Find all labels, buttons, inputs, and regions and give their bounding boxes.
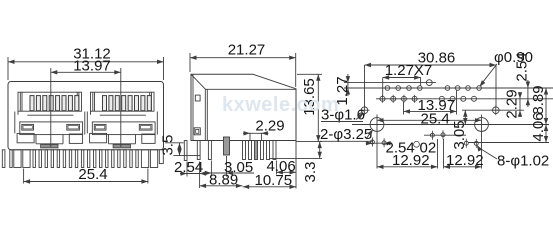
- footprint right mounting hole phi3.25: [475, 118, 489, 132]
- dimension 13.97 extension lines (port centers): [50, 68, 52, 147]
- svg-text:3.05: 3.05: [451, 120, 468, 149]
- dimension 3.05 footprint: [464, 110, 466, 124]
- dimension 3.5 extension lines: [165, 142, 184, 144]
- svg-text:25.4: 25.4: [78, 166, 107, 183]
- footprint row1 port1 signal holes: [385, 86, 390, 91]
- svg-text:3.3: 3.3: [302, 162, 319, 183]
- dimension 25.4 footprint extension lines: [376, 115, 378, 132]
- port 1 inner walls: [19, 92, 21, 111]
- port 2 latch shading: [113, 144, 130, 148]
- dimension 13.65: [317, 74, 319, 141]
- svg-text:2.54: 2.54: [514, 52, 531, 81]
- front wide LED pin left B: [23, 150, 30, 168]
- dimension 4.06 side: [276, 171, 296, 173]
- side view pin 2: [208, 141, 211, 160]
- port 2 contact blades: [103, 96, 107, 111]
- svg-text:4.06: 4.06: [267, 158, 296, 175]
- port 2 step ledge: [100, 114, 146, 116]
- port 1 left LED window: [22, 124, 34, 130]
- footprint row2 port1 holes with center marks: [380, 96, 385, 101]
- dimension 12.92 right extension line: [481, 132, 483, 169]
- dimension 4.06 extension line: [275, 161, 277, 175]
- port 1 opening: [18, 92, 82, 111]
- front right corner pin: [159, 150, 163, 164]
- svg-text:8-φ1.02: 8-φ1.02: [497, 153, 549, 170]
- footprint construction line mounting holes: [352, 124, 549, 126]
- footprint row1 port2 signal holes: [445, 86, 450, 91]
- dimension 2.29 side extension lines: [249, 133, 251, 140]
- svg-text:8.89: 8.89: [530, 85, 547, 114]
- dimension 3.3: [319, 142, 321, 159]
- port 1 lower-left block: [17, 133, 34, 142]
- front left corner pin: [10, 150, 12, 168]
- port 1 right LED window: [67, 124, 80, 130]
- port 2 latch slot: [108, 134, 110, 144]
- port 2 outer step sides: [86, 112, 88, 134]
- dimension 25.4 extension lines: [23, 169, 25, 184]
- footprint construction line row 1: [344, 87, 553, 89]
- port 1 outer step sides: [14, 112, 16, 134]
- footprint construction line through shield hole row: [344, 82, 436, 84]
- dimension 13.97 footprint extension lines: [403, 102, 405, 115]
- dimension 8.89 right vertical: [545, 88, 547, 125]
- footprint center shield hole: [426, 80, 432, 86]
- dimension 12.92 left: [377, 166, 438, 168]
- dimension 2.54 side: [180, 173, 206, 175]
- footprint left shield hole phi1.6: [361, 107, 368, 114]
- svg-text:12.92: 12.92: [392, 152, 430, 169]
- dimension 10.75: [243, 186, 296, 188]
- footprint row2 port2 holes: [439, 96, 444, 101]
- port 1 latch shading: [41, 144, 58, 148]
- dimension 30.86: [365, 64, 497, 66]
- port 2 right LED window: [139, 124, 152, 130]
- footprint LED holes construction line: [424, 134, 466, 136]
- front view: dual RJ45 jack body: [8, 82, 164, 150]
- dimension 12.92 right: [444, 166, 482, 168]
- footprint LED holes phi1.02: [370, 140, 374, 144]
- port 1 lower-right block: [69, 134, 82, 143]
- front wide LED pin right D: [150, 150, 157, 168]
- svg-text:2-φ3.25: 2-φ3.25: [320, 126, 372, 143]
- dimension 13.97 front: [51, 71, 121, 73]
- footprint construction line row 2: [376, 98, 553, 100]
- side view wide LED pin: [224, 137, 230, 155]
- dimension 25.4 footprint: [377, 119, 482, 121]
- port 2 inner walls: [92, 92, 94, 111]
- front wide LED pin left A: [14, 150, 21, 168]
- dimension 2.29 side: [243, 132, 269, 134]
- dimension 1.27 vertical: [347, 74, 349, 96]
- svg-text:13.97: 13.97: [73, 57, 111, 74]
- svg-text:8.89: 8.89: [209, 171, 238, 188]
- svg-text:25.4: 25.4: [421, 110, 450, 127]
- side view shield window: [195, 95, 200, 101]
- dimension 1.27X7: [383, 77, 421, 79]
- dimension 8.89 side: [200, 185, 243, 187]
- dimension 13.65 extension lines: [297, 73, 322, 75]
- svg-text:12.92: 12.92: [446, 152, 484, 169]
- dimension 25.4 front: [24, 181, 148, 183]
- dimension 13.97 footprint: [404, 110, 457, 112]
- dimension 1.27X7 extension lines: [382, 78, 384, 97]
- side view front shield leg: [184, 141, 187, 161]
- svg-text:2.29: 2.29: [255, 117, 284, 134]
- port 1 step ledge: [27, 114, 73, 116]
- footprint left mounting hole phi3.25: [370, 118, 384, 132]
- port 1 latch slot: [35, 134, 37, 144]
- dimension 2.29 right vertical extension: [462, 109, 524, 111]
- dimension 3.05 side: [205, 172, 254, 174]
- dimension 31.12 extension lines: [7, 57, 9, 80]
- svg-text:4.06: 4.06: [530, 112, 547, 141]
- svg-text:2.29: 2.29: [504, 89, 521, 118]
- dimension 31.12: [8, 61, 164, 63]
- side view body outline: [191, 74, 296, 140]
- side view rear pin cluster: [243, 141, 246, 160]
- port 2 lower-left block: [90, 133, 107, 142]
- dimension 3.05 side extension lines: [210, 161, 212, 177]
- svg-text:21.27: 21.27: [228, 42, 266, 59]
- side view pin 1: [197, 141, 200, 160]
- dimension 4.06 right vertical extension: [468, 142, 549, 144]
- footprint 30.86 extension lines: [364, 65, 366, 107]
- svg-text:1.27X7: 1.27X7: [385, 62, 433, 79]
- side view shield dimple: [194, 128, 200, 135]
- dimension 2.54 right vertical: [527, 80, 529, 107]
- dimension 2.54 +-.02 bottom: [366, 142, 392, 144]
- dimension 10.75 extension line: [295, 141, 297, 189]
- port 1 middle band: [20, 122, 83, 135]
- svg-text:1.27: 1.27: [334, 76, 351, 105]
- side view top chamfer lines: [191, 74, 206, 89]
- side view pin bottom reference line: [269, 158, 322, 160]
- dimension 12.92 left extension lines: [376, 132, 378, 169]
- svg-text:3.5: 3.5: [159, 135, 176, 156]
- port 2 middle band: [92, 122, 155, 135]
- port 2 opening: [91, 92, 155, 111]
- side view front panel lines: [192, 74, 194, 140]
- dimension 21.27 extension lines: [189, 53, 191, 72]
- dimension 2.54 side extension lines: [186, 162, 188, 177]
- port 2 lower-right block: [142, 134, 155, 143]
- front shield left side leg: [2, 150, 5, 168]
- port 1 contact blades: [30, 96, 34, 111]
- dimension 21.27: [190, 57, 296, 59]
- footprint right shield hole phi1.6: [493, 107, 500, 114]
- front wide LED pin right C: [141, 150, 148, 168]
- dimension 4.06 right vertical: [545, 125, 547, 143]
- svg-text:2.54: 2.54: [174, 159, 203, 176]
- port 2 left LED window: [94, 124, 106, 130]
- svg-text:3-φ1.6: 3-φ1.6: [321, 107, 365, 124]
- dimension 3.5: [179, 143, 181, 156]
- dimension 2.29 right vertical: [519, 92, 521, 117]
- front signal pin comb: [33, 150, 35, 168]
